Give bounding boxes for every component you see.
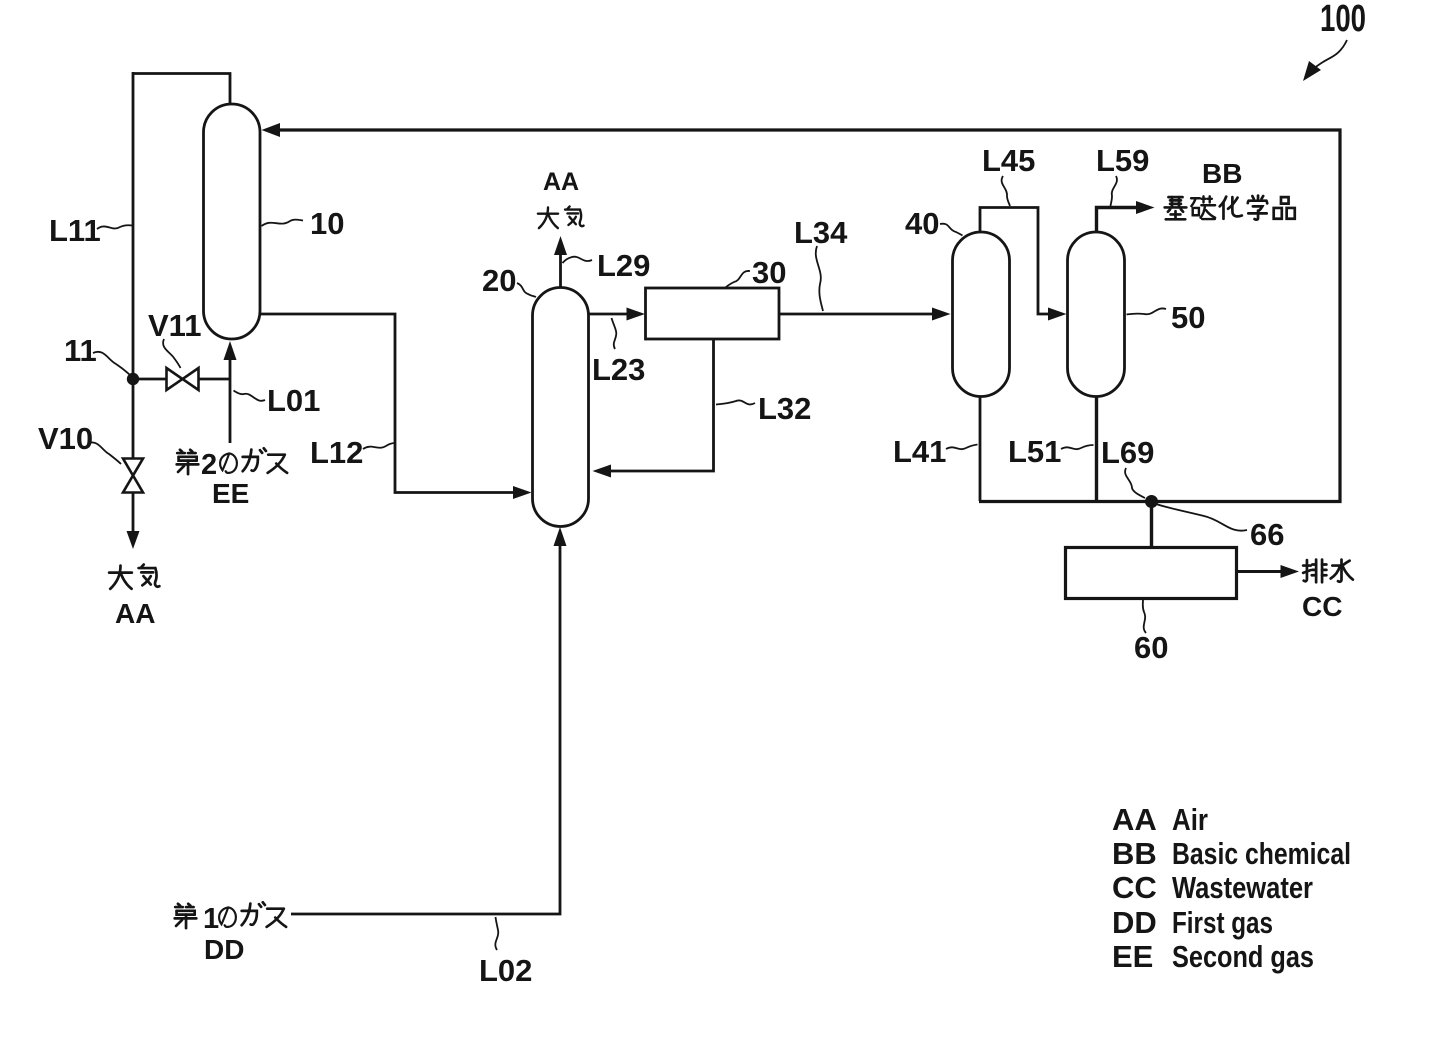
svg-text:DD: DD — [204, 934, 244, 965]
svg-text:11: 11 — [64, 333, 97, 368]
svg-text:Basic chemical: Basic chemical — [1172, 836, 1351, 871]
label 大気 left (atmosphere) — [109, 566, 132, 589]
arrowhead L23 into box 30 — [627, 308, 646, 321]
svg-text:DD: DD — [1112, 905, 1157, 940]
svg-text:L01: L01 — [267, 383, 320, 418]
svg-text:Second gas: Second gas — [1172, 939, 1314, 974]
leader 50 — [1127, 308, 1167, 314]
arrowhead L02 into vessel 20 bottom — [554, 527, 567, 546]
svg-text:CC: CC — [1302, 591, 1342, 622]
treatment box 60 — [1066, 548, 1237, 599]
arrowhead L01 into vessel 10 bottom — [224, 341, 237, 360]
wire node-11 to valve V11 to L01 — [133, 378, 230, 381]
leader 66 — [1156, 504, 1247, 531]
svg-text:1: 1 — [203, 903, 219, 935]
leader L29 — [563, 257, 593, 263]
svg-text:L11: L11 — [49, 213, 101, 248]
leader 11 — [93, 352, 132, 377]
leader L02 — [495, 917, 498, 950]
arrowhead L29 up to atmosphere — [554, 236, 567, 255]
svg-text:L23: L23 — [592, 352, 645, 387]
svg-text:L02: L02 — [479, 953, 532, 988]
svg-text:L32: L32 — [758, 391, 811, 426]
label 第1のガス (first gas) — [175, 904, 197, 928]
svg-text:100: 100 — [1320, 0, 1366, 40]
label 排水 (wastewater) — [1303, 560, 1326, 583]
valve V11 — [167, 368, 183, 390]
svg-text:First gas: First gas — [1172, 905, 1273, 940]
arrowhead L59 to basic chemical — [1136, 201, 1155, 214]
svg-text:40: 40 — [905, 206, 939, 241]
vessel 20 — [533, 288, 589, 527]
valve V10 — [123, 459, 143, 476]
leader 10 — [262, 220, 304, 226]
wire L02 — [291, 535, 560, 914]
svg-text:60: 60 — [1134, 630, 1168, 665]
leader L41 — [946, 445, 978, 450]
svg-text:CC: CC — [1112, 870, 1157, 905]
wire L11 below valve V10 — [132, 492, 135, 539]
svg-text:AA: AA — [1112, 802, 1157, 837]
wire recycle loop bottom right top — [272, 130, 1340, 502]
leader V11 — [163, 339, 180, 368]
svg-text:V11: V11 — [148, 308, 201, 343]
arrowhead of 100 leader — [1303, 61, 1321, 81]
wire wastewater out of box 60 — [1237, 570, 1291, 573]
wire L34 — [780, 313, 943, 316]
node 66 junction dot — [1145, 495, 1158, 508]
reactor box 30 — [646, 288, 780, 339]
leader L51 — [1061, 445, 1094, 449]
leader L23 — [612, 318, 617, 349]
arrowhead L34 into vessel 40 — [932, 308, 951, 321]
leader 30 — [725, 271, 750, 288]
wire L23 — [589, 313, 638, 316]
wire L01 vertical — [229, 356, 232, 443]
svg-text:V10: V10 — [38, 421, 93, 456]
svg-text:L34: L34 — [794, 215, 848, 250]
arrowhead L12 into vessel 20 — [513, 486, 532, 499]
wire L41 — [979, 396, 982, 501]
wire L12 — [260, 314, 525, 493]
svg-text:66: 66 — [1250, 517, 1284, 552]
label 大気 top (atmosphere) — [538, 207, 558, 228]
wire top-left loop from L11 to vessel 10 top — [133, 74, 230, 107]
leader L11 — [97, 225, 133, 229]
arrowhead L45 into vessel 50 — [1048, 308, 1067, 321]
leader 100 arrow — [1307, 40, 1347, 76]
leader L32 — [716, 400, 755, 404]
leader L01 — [234, 391, 266, 401]
svg-text:BB: BB — [1112, 836, 1157, 871]
vessel 50 — [1068, 232, 1125, 397]
svg-text:30: 30 — [752, 255, 786, 290]
svg-text:20: 20 — [482, 263, 516, 298]
svg-text:AA: AA — [543, 168, 579, 196]
svg-text:2: 2 — [201, 449, 217, 481]
svg-text:10: 10 — [310, 206, 344, 241]
wire L59 — [1097, 208, 1147, 233]
wire L11 vertical line — [132, 72, 135, 459]
arrowhead L32 into vessel 20 — [593, 465, 612, 478]
label 基礎化学品 (basic chemical) — [1165, 197, 1187, 219]
svg-text:AA: AA — [115, 598, 155, 629]
wire L32 — [601, 340, 714, 472]
wire L45 — [980, 208, 1058, 315]
label 第2のガス (second gas) — [177, 450, 199, 474]
svg-text:L45: L45 — [982, 143, 1035, 178]
vessel 40 — [953, 232, 1010, 397]
svg-text:BB: BB — [1202, 158, 1242, 189]
node 11 junction dot — [127, 373, 139, 385]
leader 60 — [1143, 600, 1146, 633]
svg-text:L69: L69 — [1101, 435, 1154, 470]
svg-text:L51: L51 — [1008, 434, 1061, 469]
arrowhead wastewater — [1281, 565, 1300, 578]
leader L69 — [1125, 468, 1145, 498]
leader 40 — [940, 224, 963, 236]
vessel 10 — [204, 104, 261, 339]
svg-text:L41: L41 — [893, 434, 946, 469]
svg-text:EE: EE — [212, 478, 249, 509]
wire L51 — [1095, 396, 1098, 502]
svg-text:Wastewater: Wastewater — [1172, 870, 1313, 905]
arrowhead V10 outlet down — [127, 531, 140, 549]
wire L69 drop to box 60 — [1150, 501, 1153, 547]
svg-text:L59: L59 — [1096, 143, 1149, 178]
leader V10 — [89, 442, 121, 464]
leader L12 — [363, 443, 395, 449]
leader 20 — [517, 283, 536, 297]
leader L34 — [816, 246, 823, 311]
leader L45 — [1002, 176, 1010, 206]
svg-text:50: 50 — [1171, 300, 1205, 335]
arrowhead recycle into vessel 10 — [262, 123, 281, 137]
svg-text:L29: L29 — [597, 248, 650, 283]
wire L29 — [559, 253, 562, 287]
svg-text:Air: Air — [1172, 802, 1208, 837]
svg-text:EE: EE — [1112, 939, 1153, 974]
leader L59 — [1111, 176, 1117, 206]
svg-text:L12: L12 — [310, 435, 363, 470]
